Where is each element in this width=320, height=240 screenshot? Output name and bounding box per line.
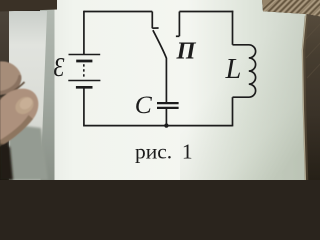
capacitor C plates xyxy=(157,103,179,108)
wire top-right segment xyxy=(179,11,233,13)
wire right rail lower xyxy=(232,97,234,126)
dark wood strip right of paper edge xyxy=(303,14,320,180)
wood table top-right corner xyxy=(262,0,320,17)
switch left contact tick xyxy=(152,27,158,29)
wire top-left segment xyxy=(84,11,152,13)
svg-text:рис. 1: рис. 1 xyxy=(135,140,193,164)
dark wood strip top-left xyxy=(0,0,57,12)
shadow on card under thumb xyxy=(9,124,48,180)
svg-text:C: C xyxy=(135,90,153,119)
main paper sheet xyxy=(42,0,306,180)
switch arm xyxy=(153,30,167,58)
bottom-right paper shading xyxy=(180,0,306,180)
finger upper xyxy=(0,61,21,95)
junction node xyxy=(164,123,168,127)
battery short plate 2 xyxy=(76,86,93,89)
svg-text:Ɛ: Ɛ xyxy=(54,53,65,83)
switch right post xyxy=(178,12,180,37)
battery dotted link xyxy=(83,64,85,79)
finger crease shadow xyxy=(0,82,25,99)
finger upper shading xyxy=(0,75,21,95)
battery long plate 2 xyxy=(68,80,100,82)
grey table gap strip between card and paper xyxy=(40,0,55,180)
wire capacitor upper lead xyxy=(165,58,167,102)
lighter wood band along paper edge xyxy=(304,16,307,180)
battery EMF source plates xyxy=(68,55,100,88)
faint grain in shadowed wood right xyxy=(305,22,320,78)
battery long plate 1 xyxy=(69,54,101,56)
dark left column xyxy=(0,0,9,180)
wire bottom rail xyxy=(83,125,232,127)
battery short plate 1 xyxy=(76,60,92,63)
wire left rail upper xyxy=(83,11,85,54)
thumb xyxy=(0,89,38,147)
wire right rail upper xyxy=(232,11,234,45)
thumbnail xyxy=(12,93,37,117)
white card at left xyxy=(9,11,47,180)
wire left rail lower xyxy=(83,89,85,126)
paper edge highlight xyxy=(303,14,307,180)
switch left post xyxy=(151,12,153,29)
thumb lower shading xyxy=(0,115,33,147)
svg-text:Π: Π xyxy=(176,38,197,65)
wire capacitor lower lead xyxy=(165,109,167,126)
inductor L coil xyxy=(233,45,256,97)
switch right contact tick xyxy=(176,35,180,37)
svg-text:L: L xyxy=(225,54,242,85)
dark wedge bottom-left xyxy=(0,144,13,180)
